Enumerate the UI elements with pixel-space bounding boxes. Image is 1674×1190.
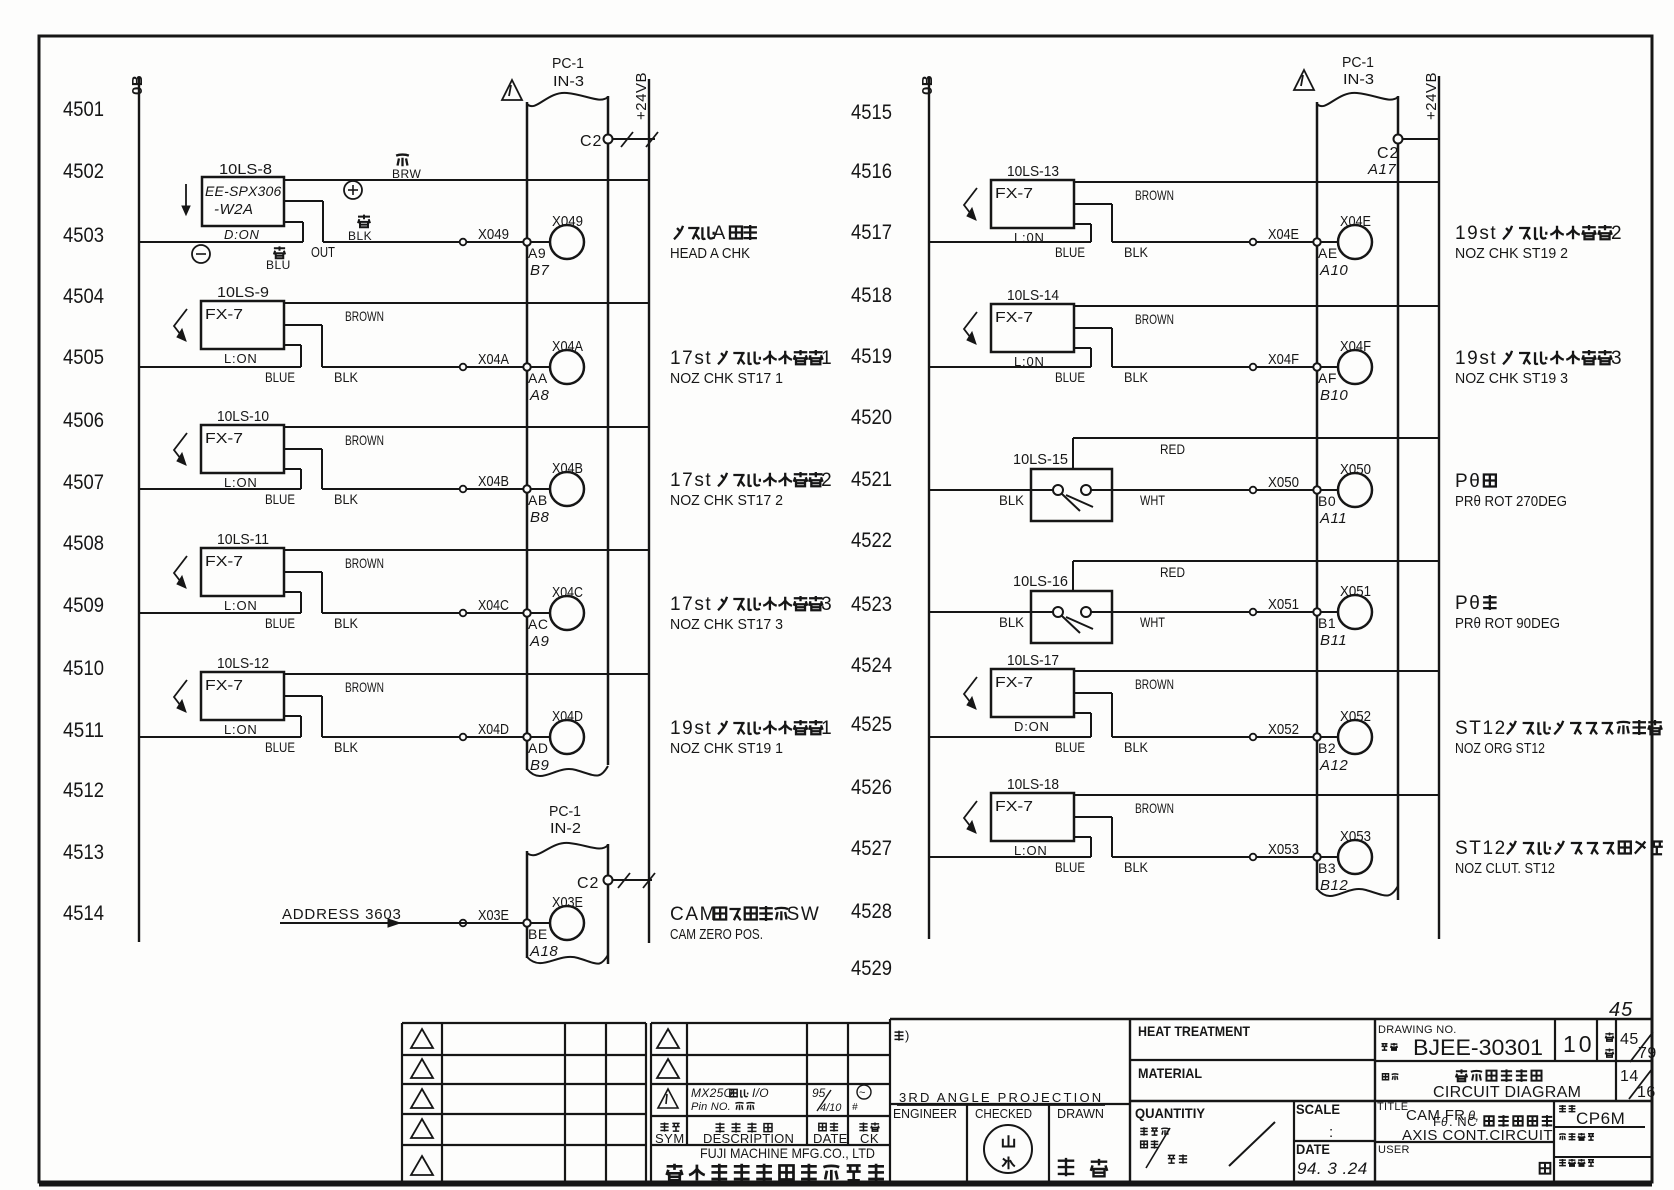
wire BLUE 10LS-12 to bus <box>139 736 301 738</box>
svg-text:A18: A18 <box>529 943 558 960</box>
svg-text:FX-7: FX-7 <box>995 185 1033 202</box>
wire BLUE 10LS-10 to bus <box>139 488 301 490</box>
svg-text:X04F: X04F <box>1340 338 1371 355</box>
svg-text:17st: 17st <box>670 348 712 369</box>
svg-text:X053: X053 <box>1340 828 1371 845</box>
svg-text:IN-2: IN-2 <box>550 820 581 837</box>
svg-text:RED: RED <box>1160 441 1185 457</box>
svg-text:10LS-15: 10LS-15 <box>1013 451 1068 468</box>
input point X04B pin AB <box>460 486 467 493</box>
checked stamp (yama-mizu) <box>984 1125 1032 1173</box>
svg-text:FUJI MACHINE MFG.CO., LTD: FUJI MACHINE MFG.CO., LTD <box>700 1145 875 1161</box>
wire BLK 10LS-11 output <box>284 571 322 573</box>
svg-text:BLUE: BLUE <box>265 491 295 507</box>
svg-text:BLK: BLK <box>334 615 359 631</box>
svg-text:4513: 4513 <box>63 841 104 864</box>
svg-text:X04A: X04A <box>552 338 583 355</box>
svg-text:#: # <box>852 1102 858 1113</box>
svg-text:AC: AC <box>528 616 548 632</box>
revision stamp R3 <box>857 1085 871 1099</box>
svg-text:BLUE: BLUE <box>265 739 295 755</box>
svg-text:14: 14 <box>1620 1068 1639 1085</box>
svg-text:4516: 4516 <box>851 160 892 183</box>
svg-text:B2: B2 <box>1318 740 1336 756</box>
svg-text:10LS-13: 10LS-13 <box>1007 163 1059 180</box>
svg-text:2: 2 <box>821 470 833 491</box>
svg-text:B8: B8 <box>530 509 550 526</box>
svg-text:10LS-10: 10LS-10 <box>217 408 269 425</box>
svg-text:B7: B7 <box>530 262 550 279</box>
svg-text:A9: A9 <box>528 245 546 261</box>
svg-text:10LS-16: 10LS-16 <box>1013 573 1068 590</box>
svg-text:4509: 4509 <box>63 594 104 617</box>
svg-text:4511: 4511 <box>63 719 104 742</box>
svg-text:4529: 4529 <box>851 957 892 980</box>
svg-text:ENGINEER: ENGINEER <box>893 1106 957 1121</box>
svg-text:X049: X049 <box>552 213 583 230</box>
svg-text:B11: B11 <box>1320 632 1347 649</box>
svg-text:TITLE: TITLE <box>1377 1101 1408 1113</box>
svg-text:SCALE: SCALE <box>1296 1101 1340 1117</box>
svg-text:4527: 4527 <box>851 837 892 860</box>
svg-text:ST12: ST12 <box>1455 838 1507 859</box>
input point X04C pin AC <box>460 610 467 617</box>
svg-text:19st: 19st <box>670 718 712 739</box>
svg-text:X04B: X04B <box>478 473 509 490</box>
svg-text:IN-3: IN-3 <box>1343 71 1374 88</box>
svg-text:CAM: CAM <box>670 904 717 925</box>
svg-text:A17: A17 <box>1367 161 1396 178</box>
+24VB rail (left) <box>648 79 650 943</box>
wire BLK 10LS-10 output <box>284 448 322 450</box>
svg-text:L:ON: L:ON <box>1014 843 1048 858</box>
svg-text:A: A <box>713 223 727 244</box>
svg-text:4525: 4525 <box>851 713 892 736</box>
wire BLUE 10LS-11 to bus <box>139 612 301 614</box>
svg-text:NOZ CHK ST17 1: NOZ CHK ST17 1 <box>670 370 783 387</box>
svg-text:SW: SW <box>787 904 821 925</box>
revision triangle L1 <box>411 1029 433 1048</box>
svg-text:BROWN: BROWN <box>345 679 384 695</box>
wire BROWN 10LS-13 to +24VB rail <box>1074 181 1439 183</box>
svg-text:19st: 19st <box>1455 223 1497 244</box>
revision triangle L3 <box>411 1089 433 1108</box>
svg-text:X050: X050 <box>1340 461 1371 478</box>
svg-text:CHECKED: CHECKED <box>975 1106 1032 1121</box>
svg-text:BLK: BLK <box>334 739 359 755</box>
svg-text:FX-7: FX-7 <box>995 309 1033 326</box>
wire RED 10LS-15 to +24VB rail <box>1072 438 1074 469</box>
svg-text:FX-7: FX-7 <box>205 430 243 447</box>
svg-text:FX-7: FX-7 <box>995 798 1033 815</box>
svg-text:BROWN: BROWN <box>345 432 384 448</box>
+24VB rail (right) <box>1438 76 1440 939</box>
wire BROWN 10LS-18 to +24VB rail <box>1074 794 1439 796</box>
svg-text:BLU: BLU <box>266 258 291 272</box>
svg-text:NOZ CHK ST17 2: NOZ CHK ST17 2 <box>670 492 783 509</box>
svg-text:4524: 4524 <box>851 654 892 677</box>
svg-text:C2: C2 <box>1377 145 1399 162</box>
svg-text:BJEE-30301: BJEE-30301 <box>1413 1035 1543 1060</box>
svg-text:X053: X053 <box>1268 841 1299 858</box>
svg-text:PC-1: PC-1 <box>549 803 581 820</box>
svg-text:4518: 4518 <box>851 284 892 307</box>
input point X04F pin AF <box>1250 364 1257 371</box>
svg-text:19st: 19st <box>1455 348 1497 369</box>
svg-text:BROWN: BROWN <box>1135 187 1174 203</box>
svg-text:RED: RED <box>1160 564 1185 580</box>
wire BLUE 10LS-17 to bus <box>929 736 1091 738</box>
svg-text:EE-SPX306: EE-SPX306 <box>205 183 282 199</box>
svg-text:0B: 0B <box>129 75 146 95</box>
svg-text:FX-7: FX-7 <box>995 674 1033 691</box>
svg-text:10LS-18: 10LS-18 <box>1007 776 1059 793</box>
svg-text:4502: 4502 <box>63 160 104 183</box>
svg-text:BLUE: BLUE <box>265 369 295 385</box>
revision triangle L5 <box>411 1156 433 1175</box>
part name cell <box>1383 1074 1389 1080</box>
svg-text:CAM ZERO POS.: CAM ZERO POS. <box>670 926 763 943</box>
svg-text:4504: 4504 <box>63 285 104 308</box>
svg-text:FX-7: FX-7 <box>205 677 243 694</box>
svg-text:16: 16 <box>1637 1084 1656 1101</box>
svg-text:4510: 4510 <box>63 657 104 680</box>
svg-text:MATERIAL: MATERIAL <box>1138 1065 1202 1081</box>
revision row 3: MX250 I/O change <box>658 1089 678 1108</box>
svg-text:4515: 4515 <box>851 101 892 124</box>
svg-text:10LS-9: 10LS-9 <box>217 284 269 301</box>
svg-text:4520: 4520 <box>851 406 892 429</box>
svg-text:4521: 4521 <box>851 468 892 491</box>
svg-text:AA: AA <box>528 370 548 386</box>
svg-text:WHT: WHT <box>1140 492 1165 508</box>
svg-text:4503: 4503 <box>63 224 104 247</box>
svg-text:45: 45 <box>1620 1031 1639 1048</box>
svg-text:L:ON: L:ON <box>224 598 258 613</box>
svg-text:4526: 4526 <box>851 776 892 799</box>
svg-text:USER: USER <box>1378 1144 1410 1156</box>
svg-text:Pin NO.: Pin NO. <box>691 1101 731 1113</box>
svg-text:4528: 4528 <box>851 900 892 923</box>
svg-text:B12: B12 <box>1320 877 1348 894</box>
svg-text:X04B: X04B <box>552 460 583 477</box>
svg-text:NOZ ORG ST12: NOZ ORG ST12 <box>1455 740 1545 757</box>
svg-text:10LS-12: 10LS-12 <box>217 655 269 672</box>
warning triangle note 1 (right) <box>1294 70 1314 90</box>
svg-text:4508: 4508 <box>63 532 104 555</box>
svg-text:I/O: I/O <box>752 1086 769 1100</box>
svg-text:X03E: X03E <box>552 894 583 911</box>
label: HEAD A CHK <box>674 226 683 240</box>
svg-text:BLUE: BLUE <box>1055 369 1085 385</box>
svg-text:BRW: BRW <box>392 167 421 181</box>
svg-text:10LS-17: 10LS-17 <box>1007 652 1059 669</box>
svg-text:BLUE: BLUE <box>1055 859 1085 875</box>
svg-text:NOZ CLUT. ST12: NOZ CLUT. ST12 <box>1455 860 1555 877</box>
svg-text:Pθ: Pθ <box>1455 593 1481 614</box>
svg-text:L:ON: L:ON <box>224 351 258 366</box>
svg-text:4519: 4519 <box>851 345 892 368</box>
svg-text:BLK: BLK <box>334 491 359 507</box>
svg-text:BLK: BLK <box>999 614 1025 630</box>
svg-text:SYM: SYM <box>655 1131 685 1146</box>
svg-text:): ) <box>905 1028 910 1043</box>
svg-text:PC-1: PC-1 <box>1342 54 1374 71</box>
svg-text:A10: A10 <box>1319 262 1348 279</box>
svg-text:2: 2 <box>1611 223 1623 244</box>
input point X050 pin B0 <box>1250 487 1257 494</box>
svg-text:X04F: X04F <box>1268 351 1299 368</box>
svg-text:1: 1 <box>821 348 833 369</box>
input point X04D pin AD <box>460 734 467 741</box>
svg-text:10: 10 <box>1563 1031 1595 1057</box>
svg-text:BROWN: BROWN <box>1135 311 1174 327</box>
svg-text:IN-3: IN-3 <box>553 73 584 90</box>
input point X04A pin AA <box>460 364 467 371</box>
svg-text:4523: 4523 <box>851 593 892 616</box>
svg-text:C2: C2 <box>577 875 599 892</box>
wire BROWN 10LS-12 to +24VB rail <box>284 673 649 675</box>
wire RED 10LS-16 to +24VB rail <box>1072 561 1074 591</box>
svg-text:L:ON: L:ON <box>224 475 258 490</box>
wire BLK 10LS-9 output <box>284 324 322 326</box>
svg-text:10LS-14: 10LS-14 <box>1007 287 1059 304</box>
wire BRW 10LS-8 to +24VB rail <box>284 179 649 181</box>
svg-text:10LS-8: 10LS-8 <box>219 161 272 178</box>
input point X04E pin AE <box>1250 239 1257 246</box>
svg-text:45: 45 <box>1609 999 1633 1021</box>
title block right section <box>1130 1059 1375 1061</box>
wire BLK bus to 10LS-16 <box>929 611 1053 613</box>
svg-text:4514: 4514 <box>63 902 104 925</box>
contact blades 10LS-16 <box>1053 607 1063 617</box>
svg-text:ST12: ST12 <box>1455 718 1507 739</box>
plus polarity mark <box>344 181 362 199</box>
svg-text:~: ~ <box>859 1087 866 1099</box>
input point X052 pin B2 <box>1250 734 1257 741</box>
svg-text:X04C: X04C <box>478 597 509 614</box>
svg-text:4/10: 4/10 <box>820 1102 842 1114</box>
wire BLUE 10LS-14 to bus <box>929 366 1091 368</box>
svg-text:AD: AD <box>528 740 548 756</box>
wire WHT 10LS-15 output <box>1091 489 1249 491</box>
wire WHT 10LS-16 output <box>1091 611 1249 613</box>
svg-text:B1: B1 <box>1318 615 1336 631</box>
input point X03E pin BE <box>460 920 467 927</box>
revision triangle R1 <box>657 1029 679 1048</box>
svg-text:X050: X050 <box>1268 474 1299 491</box>
svg-text:B0: B0 <box>1318 493 1336 509</box>
svg-text:X04C: X04C <box>552 584 583 601</box>
svg-text:+24VB: +24VB <box>1423 72 1440 120</box>
signature row ENGINEER/CHECKED/DRAWN <box>966 1104 968 1181</box>
svg-text:B3: B3 <box>1318 860 1336 876</box>
svg-text:BLK: BLK <box>348 229 372 243</box>
svg-text:Pθ: Pθ <box>1455 471 1481 492</box>
revision triangle R2 <box>657 1059 679 1078</box>
wire BLK 10LS-12 output <box>284 695 322 697</box>
svg-text:95: 95 <box>812 1086 826 1100</box>
minus polarity mark <box>192 245 210 263</box>
svg-text:4501: 4501 <box>63 98 104 121</box>
svg-text:4522: 4522 <box>851 529 892 552</box>
svg-text:BLK: BLK <box>999 492 1025 508</box>
svg-text:BLUE: BLUE <box>265 615 295 631</box>
svg-text:BLK: BLK <box>334 369 359 385</box>
wire BLK 10LS-17 output <box>1074 692 1112 694</box>
svg-text:X051: X051 <box>1268 596 1299 613</box>
svg-text:3: 3 <box>821 594 833 615</box>
svg-text:DESCRIPTION: DESCRIPTION <box>703 1131 794 1146</box>
quantity fraction <box>1140 1127 1148 1135</box>
svg-text:94. 3 .24: 94. 3 .24 <box>1297 1159 1368 1178</box>
svg-text:QUANTITIY: QUANTITIY <box>1135 1105 1206 1121</box>
wire BROWN 10LS-10 to +24VB rail <box>284 426 649 428</box>
svg-text:CIRCUIT DIAGRAM: CIRCUIT DIAGRAM <box>1433 1084 1581 1101</box>
svg-text:FX-7: FX-7 <box>205 306 243 323</box>
revision table 2 <box>651 1022 890 1024</box>
revision triangle L2 <box>411 1059 433 1078</box>
svg-text:OUT: OUT <box>311 244 335 261</box>
bus 0B (right) <box>928 78 930 939</box>
drawn signature Esaka <box>1058 1158 1075 1176</box>
svg-text:NOZ CHK ST19 3: NOZ CHK ST19 3 <box>1455 370 1568 387</box>
contact blades 10LS-15 <box>1053 485 1063 495</box>
svg-text:1: 1 <box>821 718 833 739</box>
svg-text:C2: C2 <box>580 133 602 150</box>
svg-text:-W2A: -W2A <box>214 201 254 218</box>
svg-text:PRθ ROT 270DEG: PRθ ROT 270DEG <box>1455 493 1567 510</box>
bus 0B (left) <box>138 78 140 942</box>
svg-text:A11: A11 <box>1319 510 1347 527</box>
input point X049 pin A9 <box>460 239 467 246</box>
svg-text:BLK: BLK <box>1124 859 1149 875</box>
svg-text:X03E: X03E <box>478 907 509 924</box>
svg-text:NOZ CHK ST19 1: NOZ CHK ST19 1 <box>670 740 783 757</box>
svg-text:BROWN: BROWN <box>345 308 384 324</box>
svg-text:HEAT TREATMENT: HEAT TREATMENT <box>1138 1023 1250 1039</box>
svg-text:X04E: X04E <box>1340 213 1371 230</box>
wire BLUE 10LS-9 to bus <box>139 366 301 368</box>
machine type cell <box>1559 1105 1566 1113</box>
svg-text:B10: B10 <box>1320 387 1348 404</box>
svg-text:CK: CK <box>860 1131 879 1146</box>
svg-text:WHT: WHT <box>1140 614 1165 630</box>
svg-text:X04A: X04A <box>478 351 509 368</box>
svg-text:BROWN: BROWN <box>1135 676 1174 692</box>
svg-text:X04E: X04E <box>1268 226 1299 243</box>
revision table 1 <box>402 1022 646 1024</box>
svg-text:BLK: BLK <box>1124 739 1149 755</box>
svg-text:MX25O: MX25O <box>691 1086 733 1100</box>
wire BLUE 10LS-13 to bus <box>929 241 1091 243</box>
svg-text:L:ON: L:ON <box>224 722 258 737</box>
input point X053 pin B3 <box>1250 854 1257 861</box>
svg-text:D:ON: D:ON <box>224 227 260 242</box>
svg-text:X049: X049 <box>478 226 509 243</box>
svg-text:79: 79 <box>1638 1045 1657 1062</box>
notes block <box>890 1018 1652 1020</box>
svg-text:A12: A12 <box>1319 757 1348 774</box>
wire BROWN 10LS-9 to +24VB rail <box>284 302 649 304</box>
svg-text:HEAD A CHK: HEAD A CHK <box>670 245 750 262</box>
svg-text:10LS-11: 10LS-11 <box>217 531 269 548</box>
svg-text:B9: B9 <box>530 757 550 774</box>
wire BLU 10LS-8 to bus <box>139 241 303 243</box>
svg-text:X051: X051 <box>1340 583 1371 600</box>
node C2 (right top) <box>1394 135 1403 144</box>
svg-text:BE: BE <box>528 926 548 942</box>
svg-text:PC-1: PC-1 <box>552 55 584 72</box>
svg-text:AB: AB <box>528 492 548 508</box>
wire BLK bus to 10LS-15 <box>929 489 1053 491</box>
svg-text:BROWN: BROWN <box>345 555 384 571</box>
wire BLUE 10LS-18 to bus <box>929 856 1091 858</box>
svg-text:AXIS CONT.CIRCUIT: AXIS CONT.CIRCUIT <box>1402 1127 1553 1144</box>
wire BROWN 10LS-14 to +24VB rail <box>1074 305 1439 307</box>
svg-text:X04D: X04D <box>478 721 509 738</box>
warning triangle note 1 (left) <box>502 80 522 100</box>
svg-text:4512: 4512 <box>63 779 104 802</box>
svg-text:NOZ CHK ST17 3: NOZ CHK ST17 3 <box>670 616 783 633</box>
svg-text:FX-7: FX-7 <box>205 553 243 570</box>
wire BLK 10LS-13 output <box>1074 203 1112 205</box>
svg-text:3: 3 <box>1611 348 1623 369</box>
svg-text:AF: AF <box>1318 370 1337 386</box>
svg-text::: : <box>1329 1124 1334 1141</box>
svg-text:17st: 17st <box>670 594 712 615</box>
svg-text:BROWN: BROWN <box>1135 800 1174 816</box>
svg-text:AE: AE <box>1318 245 1338 261</box>
wire BLK 10LS-14 output <box>1074 327 1112 329</box>
svg-text:NOZ CHK ST19 2: NOZ CHK ST19 2 <box>1455 245 1568 262</box>
wire BROWN 10LS-11 to +24VB rail <box>284 549 649 551</box>
svg-text:X052: X052 <box>1340 708 1371 725</box>
svg-text:D:ON: D:ON <box>1014 719 1050 734</box>
revision triangle L4 <box>411 1119 433 1138</box>
svg-text:ADDRESS 3603: ADDRESS 3603 <box>282 906 402 923</box>
svg-text:PRθ ROT 90DEG: PRθ ROT 90DEG <box>1455 615 1560 632</box>
svg-text:4506: 4506 <box>63 409 104 432</box>
svg-text:4505: 4505 <box>63 346 104 369</box>
svg-text:A8: A8 <box>529 387 550 404</box>
input point X051 pin B1 <box>1250 609 1257 616</box>
svg-text:4507: 4507 <box>63 471 104 494</box>
svg-text:3RD ANGLE PROJECTION: 3RD ANGLE PROJECTION <box>899 1090 1103 1105</box>
svg-text:+24VB: +24VB <box>633 72 650 120</box>
svg-text:X052: X052 <box>1268 721 1299 738</box>
svg-text:A9: A9 <box>529 633 550 650</box>
svg-text:BLK: BLK <box>1124 244 1149 260</box>
svg-text:CP6M: CP6M <box>1576 1109 1625 1128</box>
svg-text:BLUE: BLUE <box>1055 244 1085 260</box>
svg-text:DATE: DATE <box>1296 1141 1330 1157</box>
svg-text:X04D: X04D <box>552 708 583 725</box>
svg-text:0B: 0B <box>919 75 936 95</box>
wire BLK 10LS-18 output <box>1074 816 1112 818</box>
svg-text:DATE: DATE <box>813 1131 848 1146</box>
svg-text:4517: 4517 <box>851 221 892 244</box>
svg-text:17st: 17st <box>670 470 712 491</box>
svg-text:DRAWN: DRAWN <box>1057 1106 1104 1121</box>
svg-text:BLUE: BLUE <box>1055 739 1085 755</box>
wire BLK OUT 10LS-8 <box>284 200 323 202</box>
revision table header SYM/DESCRIPTION/DATE/CK <box>660 1122 668 1131</box>
wire BROWN 10LS-17 to +24VB rail <box>1074 670 1439 672</box>
svg-text:BLK: BLK <box>1124 369 1149 385</box>
